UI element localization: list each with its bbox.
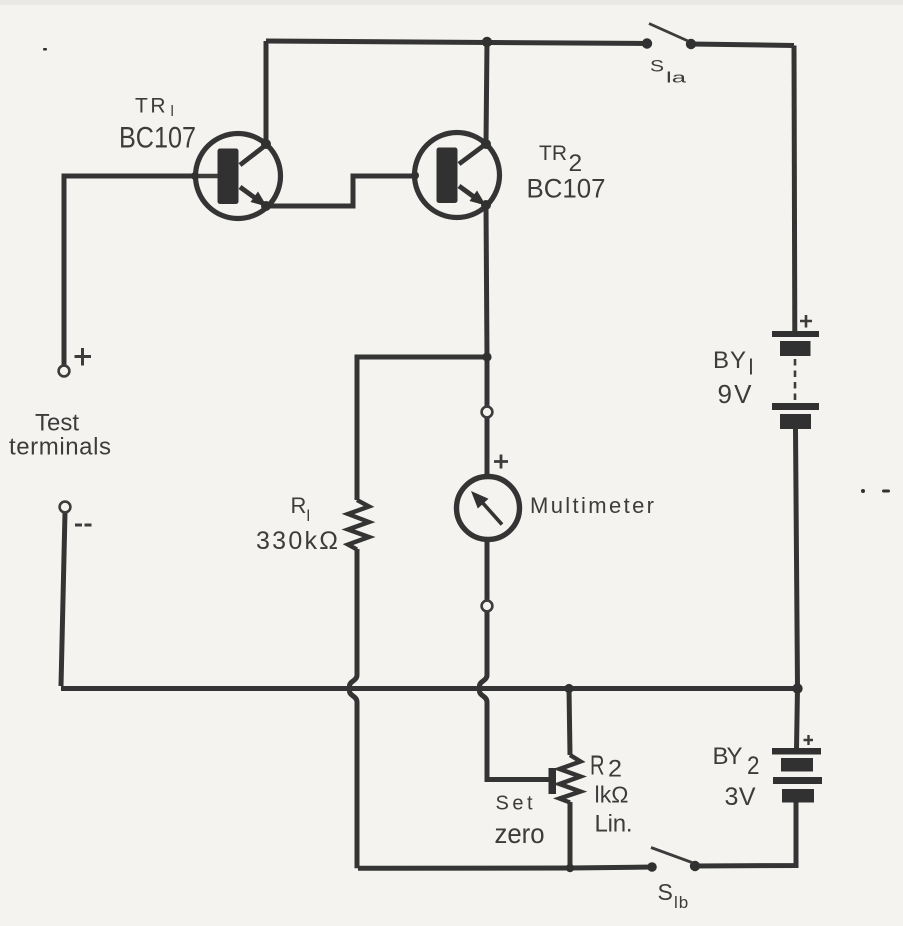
wire BY2 to bottom corner <box>695 802 796 866</box>
svg-text:BY: BY <box>713 347 746 374</box>
svg-text:2: 2 <box>747 752 760 780</box>
svg-text:S: S <box>650 57 664 76</box>
node junction R2 bottom <box>566 864 574 872</box>
wire right rail upper <box>792 46 798 333</box>
battery BY1 <box>772 331 819 429</box>
scan edge band <box>0 0 903 5</box>
wire top rail left <box>266 41 647 44</box>
transistor Q TR2 <box>411 133 500 218</box>
wire left lower to main rail <box>61 513 65 687</box>
label S1a <box>650 57 687 87</box>
wire TR1 collector riser <box>264 41 269 144</box>
svg-text:TR: TR <box>539 142 567 165</box>
svg-text:2: 2 <box>608 756 622 783</box>
plus sign meter <box>494 455 508 469</box>
plus sign BY1 <box>800 315 812 328</box>
switch S1b <box>647 848 700 872</box>
wire TR2 emitter drop <box>486 205 487 357</box>
minus sign test terminal <box>75 524 92 527</box>
label R1 <box>291 493 311 525</box>
resistor R1 <box>348 500 369 550</box>
label S1b <box>658 879 690 912</box>
wire main rail <box>61 686 798 691</box>
node junction R1 top <box>482 352 491 361</box>
wire right rail mid <box>796 429 798 688</box>
svg-text:l: l <box>171 103 174 120</box>
wire left branch base <box>64 176 195 366</box>
svg-text:TR: TR <box>135 95 168 118</box>
wire meter lower lead <box>485 540 490 601</box>
svg-text:Lin.: Lin. <box>595 811 633 838</box>
speck marks <box>43 48 890 493</box>
label R2 <box>590 750 622 783</box>
terminal minus <box>60 502 71 513</box>
svg-text:Set: Set <box>496 793 533 815</box>
wire TR2 collector riser <box>486 41 487 144</box>
node junction R2 top <box>564 684 573 693</box>
node junction top rail TR2 collector <box>482 37 492 47</box>
svg-text:terminals: terminals <box>9 434 111 461</box>
wire meter upper lead <box>485 418 490 477</box>
svg-text:l: l <box>307 508 311 525</box>
plus sign test terminal <box>75 348 92 366</box>
svg-text:la: la <box>666 70 687 87</box>
label BY2 <box>713 743 760 780</box>
svg-text:R: R <box>291 493 307 518</box>
terminal plus <box>59 366 70 377</box>
wiper bar R2 <box>549 768 557 794</box>
switch S1a <box>642 24 696 50</box>
wire R1 bottom lead with hop over rail <box>350 549 358 868</box>
svg-text:330kΩ: 330kΩ <box>256 527 338 555</box>
svg-text:S: S <box>658 879 673 905</box>
node junction right rail main rail <box>792 683 802 693</box>
terminal meter bottom <box>482 601 493 612</box>
svg-text:BY: BY <box>713 743 743 770</box>
label BY1 <box>713 347 753 380</box>
battery BY2 <box>772 748 822 803</box>
wire R2 top lead <box>569 689 570 756</box>
svg-text:BC107: BC107 <box>119 122 196 155</box>
svg-text:R: R <box>590 750 605 781</box>
plus sign BY2 <box>804 735 814 745</box>
label TR1 <box>135 95 174 121</box>
svg-text:l: l <box>749 355 754 380</box>
svg-text:Test: Test <box>35 410 79 437</box>
svg-text:zero: zero <box>495 818 545 849</box>
label TR2 <box>539 142 582 177</box>
label Test terminals <box>9 410 111 461</box>
wire meter line lower with hop over rail <box>480 612 551 780</box>
wire TR1 emitter to TR2 base <box>266 176 415 206</box>
svg-text:lkΩ: lkΩ <box>595 782 629 808</box>
wire R1 top link <box>357 357 487 500</box>
wire right rail to BY2 <box>797 688 798 749</box>
svg-text:lb: lb <box>674 893 689 912</box>
wire bottom rail left of S1b <box>358 867 652 868</box>
meter M1 multimeter <box>457 477 520 540</box>
label Set zero <box>495 793 545 850</box>
wire top rail right <box>691 44 794 46</box>
wire R2 bottom lead <box>568 802 573 868</box>
wire meter top lead <box>485 357 490 407</box>
svg-text:3V: 3V <box>725 783 756 811</box>
transistor Q TR1 <box>191 134 281 219</box>
potentiometer R2 <box>560 755 581 803</box>
svg-text:9V: 9V <box>718 379 753 409</box>
terminal meter top <box>482 407 493 418</box>
svg-text:BC107: BC107 <box>527 174 606 204</box>
